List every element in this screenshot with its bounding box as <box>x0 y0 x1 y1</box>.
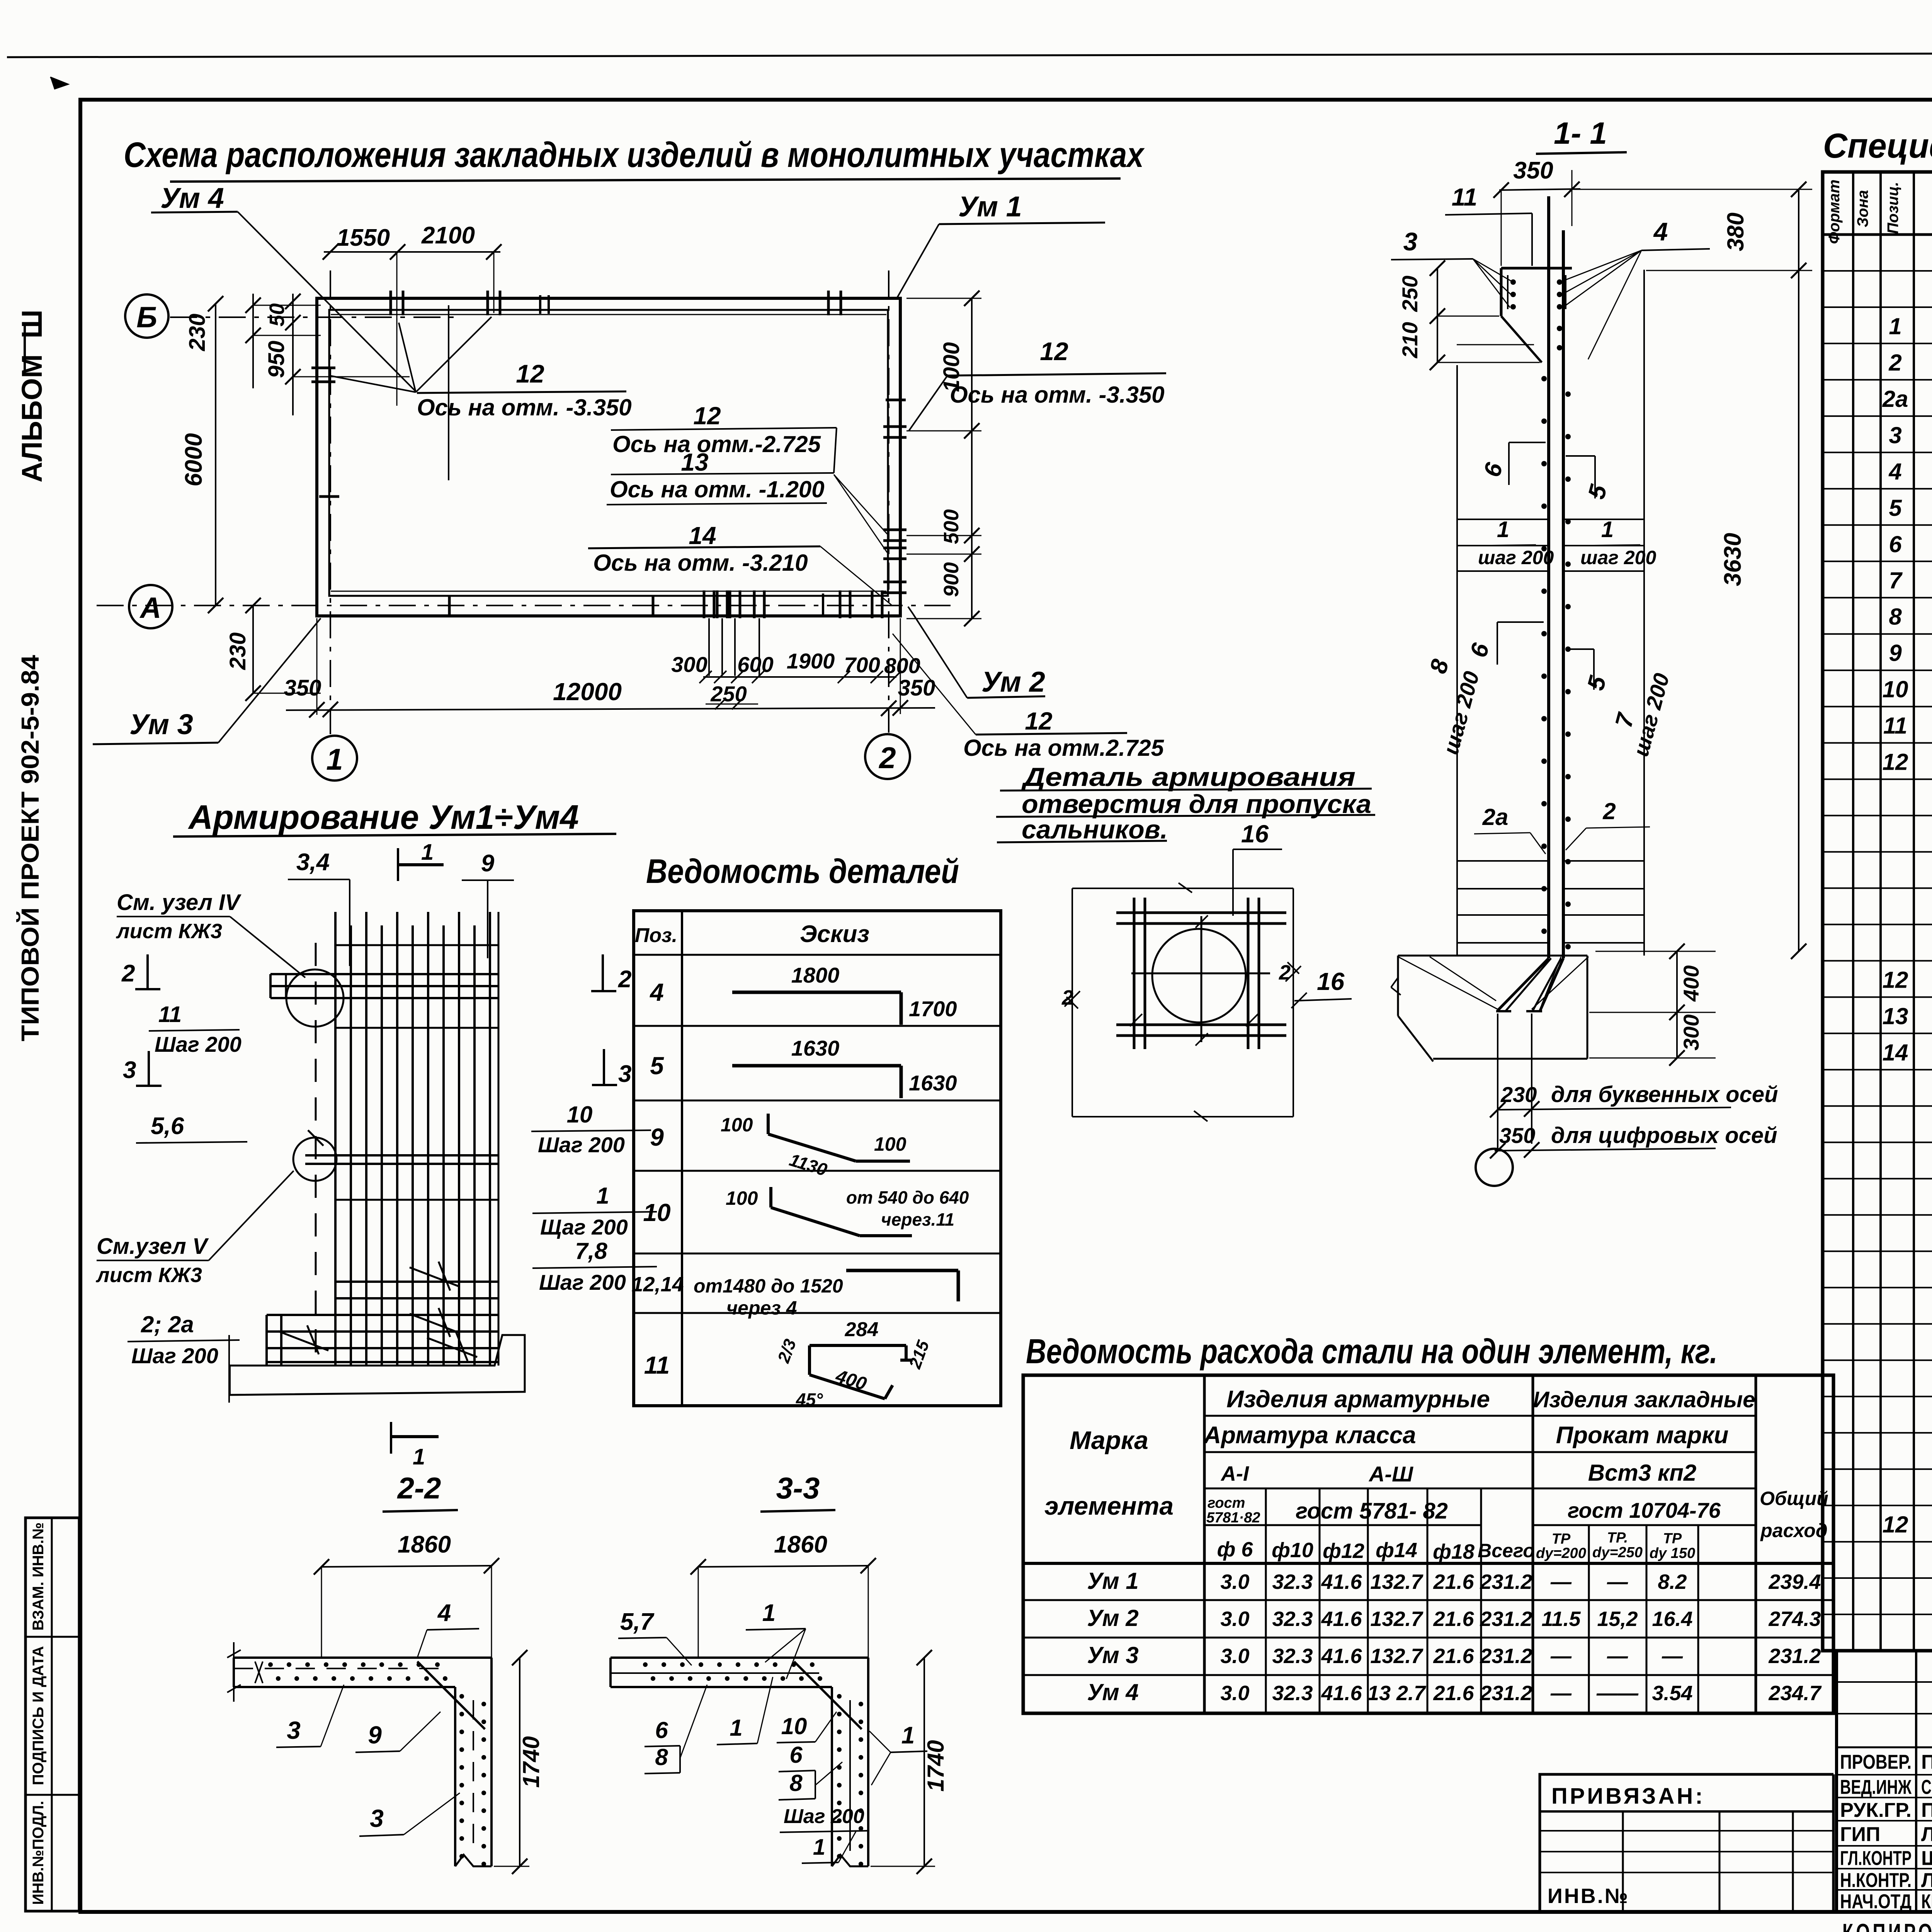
svg-text:1740: 1740 <box>518 1736 544 1787</box>
label Ум3 with leader <box>93 618 321 744</box>
svg-text:350: 350 <box>284 675 321 701</box>
label 7,8 Шаг 200 (right) <box>532 1238 657 1294</box>
svg-text:231.2: 231.2 <box>1480 1570 1532 1594</box>
plan: wall joint marks <box>319 400 906 615</box>
1-1 dim 380 (right) <box>1566 182 1812 278</box>
plan: outer wall rectangle <box>317 298 900 616</box>
svg-text:10: 10 <box>1883 677 1908 702</box>
svg-text:для буквенных осей: для буквенных осей <box>1551 1082 1778 1107</box>
svg-text:3.0: 3.0 <box>1220 1682 1249 1705</box>
svg-text:3: 3 <box>618 1061 631 1087</box>
svg-text:Ведомость деталей: Ведомость деталей <box>646 852 959 890</box>
svg-text:1860: 1860 <box>398 1531 451 1558</box>
svg-text:—: — <box>1607 1645 1628 1668</box>
section mark 1 (bottom) <box>391 1422 439 1469</box>
svg-text:1860: 1860 <box>774 1531 827 1558</box>
1-1 dim 3630 (right) <box>1719 270 1806 959</box>
plan dim: 230 (left top) <box>185 294 321 388</box>
plan dim: 6000 (left) <box>180 296 223 613</box>
svg-text:9: 9 <box>481 850 495 877</box>
1-1 label 7 шаг 200 (right rotated) <box>1610 671 1674 759</box>
1-1 dims 250 210 (left) <box>1398 260 1540 370</box>
plan: embedded plate on left wall <box>311 368 335 382</box>
svg-text:Формат: Формат <box>1826 180 1843 244</box>
label Ум4 with leader <box>151 182 416 391</box>
svg-text:10: 10 <box>643 1199 670 1226</box>
svg-text:1: 1 <box>326 742 343 776</box>
svg-text:РУК.ГР.: РУК.ГР. <box>1840 1799 1912 1821</box>
1-1 rebar dots along walls <box>1541 376 1571 949</box>
plan: embedded plates on right wall <box>883 427 906 593</box>
svg-text:12000: 12000 <box>553 678 622 706</box>
svg-text:Ум 4: Ум 4 <box>1087 1679 1139 1705</box>
specification table frame <box>1823 172 1932 1651</box>
svg-text:231.2: 231.2 <box>1768 1645 1821 1668</box>
svg-text:Позиц.: Позиц. <box>1884 182 1901 234</box>
svg-text:Эскиз: Эскиз <box>800 921 869 947</box>
svg-text:21.6: 21.6 <box>1433 1645 1474 1668</box>
plan: embedded plates on bottom wall <box>704 590 882 676</box>
svg-text:1: 1 <box>1601 517 1614 542</box>
svg-text:50: 50 <box>265 303 289 327</box>
leader note 12 / Ось на отм.-3.350 (left) <box>329 317 632 420</box>
details row 9 sketch <box>650 1114 910 1180</box>
svg-text:Зона: Зона <box>1854 190 1871 228</box>
svg-text:ЛЕВИНА: ЛЕВИНА <box>1921 1869 1932 1892</box>
label 5,6 <box>136 1113 247 1143</box>
svg-text:1550: 1550 <box>337 224 390 251</box>
svg-text:15,2: 15,2 <box>1597 1607 1638 1631</box>
svg-text:1: 1 <box>596 1183 609 1209</box>
title: Армирование Ум1 - Ум4 <box>173 798 616 837</box>
svg-text:4: 4 <box>437 1600 451 1626</box>
section 2-2 dim 1740 <box>494 1650 544 1874</box>
svg-text:8: 8 <box>655 1744 668 1770</box>
leader note 14 / Ось на отм.-3.210 <box>588 522 893 606</box>
svg-text:лист КЖ3: лист КЖ3 <box>95 1264 202 1287</box>
svg-text:1900: 1900 <box>787 649 835 673</box>
svg-text:231.2: 231.2 <box>1480 1682 1532 1705</box>
svg-text:284: 284 <box>845 1318 879 1341</box>
svg-text:1630: 1630 <box>909 1071 957 1095</box>
section 2-2 left break marks <box>227 1642 241 1702</box>
svg-text:250: 250 <box>1398 276 1422 312</box>
svg-text:Шаг 200: Шаг 200 <box>538 1133 625 1157</box>
plan dim: 230 (left bottom) <box>225 598 321 701</box>
svg-text:Ось на отм.-2.725: Ось на отм.-2.725 <box>612 431 821 457</box>
section 3-3 dim 1740 <box>871 1650 949 1874</box>
svg-text:231.2: 231.2 <box>1480 1645 1532 1668</box>
svg-text:4: 4 <box>1888 459 1901 485</box>
svg-text:3,4: 3,4 <box>296 849 330 876</box>
svg-text:Арматура класса: Арматура класса <box>1203 1422 1416 1449</box>
section mark 3 (right) <box>592 1049 631 1087</box>
steel table data rows <box>1087 1568 1822 1705</box>
note См.узел V лист КЖ3 <box>95 1171 294 1287</box>
section mark 2 (right) <box>591 954 631 993</box>
svg-text:АЛЬБОМ Ш: АЛЬБОМ Ш <box>16 310 48 482</box>
svg-text:12,14: 12,14 <box>631 1273 684 1296</box>
svg-text:ШАПИРО: ШАПИРО <box>1921 1847 1932 1870</box>
svg-text:НАЧ.ОТД: НАЧ.ОТД <box>1840 1891 1912 1913</box>
svg-text:2100: 2100 <box>421 222 475 249</box>
svg-text:210: 210 <box>1398 322 1422 358</box>
svg-text:6: 6 <box>789 1742 803 1768</box>
label 2; 2а Шаг 200 <box>128 1311 240 1368</box>
details row 5 sketch <box>650 1036 957 1098</box>
1-1 label 4 with fan <box>1562 217 1710 359</box>
svg-text:1: 1 <box>730 1715 742 1741</box>
svg-text:230: 230 <box>185 314 210 352</box>
svg-text:400: 400 <box>1679 965 1703 1002</box>
svg-text:ГИП: ГИП <box>1840 1823 1880 1846</box>
section mark 3,4 (top) <box>288 849 350 966</box>
svg-text:гост 5781- 82: гост 5781- 82 <box>1296 1498 1448 1524</box>
svg-text:Н.КОНТР.: Н.КОНТР. <box>1840 1869 1912 1892</box>
svg-text:Щаг 200: Щаг 200 <box>540 1215 628 1239</box>
svg-text:Ум 1: Ум 1 <box>958 190 1022 223</box>
svg-text:700: 700 <box>844 653 880 677</box>
title: Ведомость расхода стали на один элемент, кг <box>1026 1332 1718 1371</box>
main title: Схема расположения закладных изделий в монолитных участках <box>124 135 1145 182</box>
svg-text:14: 14 <box>689 522 716 549</box>
left margin label: Альбом III <box>16 310 48 482</box>
svg-text:А: А <box>139 592 162 624</box>
section 2-2 title <box>383 1471 458 1512</box>
title: Ведомость деталей <box>646 852 959 890</box>
svg-text:230: 230 <box>225 633 250 670</box>
svg-text:расход: расход <box>1760 1520 1828 1541</box>
axis circle 1 <box>312 736 357 781</box>
svg-text:ф18: ф18 <box>1433 1540 1475 1563</box>
svg-text:6: 6 <box>655 1717 668 1743</box>
details row 11 sketch <box>644 1318 933 1410</box>
specification rows <box>1823 271 1932 1614</box>
svg-text:Всего: Всего <box>1478 1540 1535 1561</box>
svg-text:шаг 200: шаг 200 <box>1478 547 1554 568</box>
plan: axis line 1 (vertical) <box>330 270 331 734</box>
svg-text:234.7: 234.7 <box>1768 1682 1822 1705</box>
svg-text:8.2: 8.2 <box>1658 1570 1687 1594</box>
svg-text:Марка: Марка <box>1070 1426 1148 1454</box>
svg-text:Армирование Ум1÷Ум4: Армирование Ум1÷Ум4 <box>188 798 579 836</box>
plan: Ум4 corner element edge <box>448 305 449 480</box>
svg-text:3.0: 3.0 <box>1220 1570 1249 1594</box>
label 1 Щаг 200 (right) <box>532 1183 657 1239</box>
svg-text:21.6: 21.6 <box>1433 1682 1474 1705</box>
plan dim: 12000 / 350 (bottom) <box>284 618 935 718</box>
1-1 wall centre lines <box>1496 196 1563 1011</box>
label 10 Шаг 200 (right) <box>531 1102 651 1157</box>
section mark 3 (left) <box>123 1051 162 1086</box>
svg-text:Ум 2: Ум 2 <box>981 666 1045 698</box>
svg-text:ЛЕВИНА: ЛЕВИНА <box>1921 1823 1932 1846</box>
svg-text:13: 13 <box>1883 1003 1908 1029</box>
svg-text:1: 1 <box>901 1722 915 1749</box>
svg-text:Ось на отм. -3.350: Ось на отм. -3.350 <box>950 382 1165 408</box>
title: Спецификация монолитных участков Ум1-Ум4 <box>1823 127 1932 165</box>
svg-text:3.0: 3.0 <box>1220 1645 1249 1668</box>
svg-text:Спецификация монолитных участк: Спецификация монолитных участков Ум1 ÷ У… <box>1823 127 1932 165</box>
svg-text:Ум 3: Ум 3 <box>1087 1642 1139 1668</box>
plan: axis line Б stub <box>170 316 456 318</box>
svg-text:1740: 1740 <box>923 1740 949 1791</box>
svg-text:41.6: 41.6 <box>1321 1645 1362 1668</box>
svg-text:32.3: 32.3 <box>1272 1645 1313 1668</box>
svg-text:—: — <box>1607 1570 1628 1594</box>
svg-text:1700: 1700 <box>909 997 957 1021</box>
label Ум1 with leader <box>897 190 1105 298</box>
svg-text:8: 8 <box>789 1770 803 1796</box>
svg-text:5781·82: 5781·82 <box>1206 1510 1260 1526</box>
svg-text:Изделия арматурные: Изделия арматурные <box>1226 1386 1490 1413</box>
svg-text:Ось на отм.2.725: Ось на отм.2.725 <box>963 735 1165 761</box>
svg-text:См. узел IV: См. узел IV <box>117 890 241 915</box>
svg-text:132.7: 132.7 <box>1370 1645 1423 1668</box>
svg-text:КРАСАВИН: КРАСАВИН <box>1921 1891 1932 1913</box>
svg-text:dy=200: dy=200 <box>1536 1545 1586 1561</box>
svg-text:Поз.: Поз. <box>635 924 677 947</box>
note См.узел IV лист КЖ3 <box>116 890 305 978</box>
left margin stamp column <box>26 1518 79 1911</box>
svg-text:32.3: 32.3 <box>1272 1682 1313 1705</box>
svg-text:500: 500 <box>940 509 963 544</box>
svg-text:ПИСЬМАН: ПИСЬМАН <box>1921 1751 1932 1774</box>
1-1 footing <box>1391 956 1588 1061</box>
svg-text:41.6: 41.6 <box>1321 1682 1362 1705</box>
section mark 1 (top) <box>398 840 444 881</box>
svg-text:ф12: ф12 <box>1323 1539 1364 1563</box>
svg-text:2; 2а: 2; 2а <box>141 1311 194 1337</box>
footing outline under cage <box>229 1335 525 1403</box>
svg-text:4: 4 <box>649 978 664 1006</box>
note 350 для цифровых осей <box>1490 1123 1777 1158</box>
details table frame <box>634 911 1001 1406</box>
details row 4 sketch <box>649 963 957 1025</box>
rebar cage: dashed formwork edge <box>308 943 323 1366</box>
svg-text:сальников.: сальников. <box>1022 815 1168 844</box>
svg-text:11: 11 <box>1883 713 1907 739</box>
svg-text:А-I: А-I <box>1220 1462 1249 1485</box>
svg-text:13 2.7: 13 2.7 <box>1367 1682 1427 1705</box>
svg-text:8: 8 <box>1889 604 1902 630</box>
svg-text:41.6: 41.6 <box>1321 1607 1362 1631</box>
left margin label: Типовой проект 902-5-9.84 <box>16 655 44 1041</box>
section 3-3 title <box>760 1471 835 1512</box>
1-1 label 8 шаг 200 (left rotated) <box>1425 656 1484 757</box>
svg-text:300: 300 <box>1679 1014 1703 1050</box>
svg-text:КОПИРОВАЛ: ЛОГИНОВА: КОПИРОВАЛ: ЛОГИНОВА <box>1842 1919 1932 1932</box>
svg-text:ф 6: ф 6 <box>1217 1538 1253 1561</box>
svg-text:—: — <box>1550 1682 1572 1705</box>
svg-text:274.3: 274.3 <box>1768 1607 1821 1631</box>
svg-text:231.2: 231.2 <box>1480 1607 1532 1631</box>
svg-text:3630: 3630 <box>1719 533 1746 586</box>
svg-text:Схема расположения закладных и: Схема расположения закладных изделий в м… <box>124 135 1145 175</box>
svg-text:3: 3 <box>370 1804 384 1832</box>
svg-text:2а: 2а <box>1882 386 1908 412</box>
svg-text:Ведомость расхода стали на оди: Ведомость расхода стали на один элемент,… <box>1026 1332 1718 1371</box>
label 16 (right) with leader <box>1291 968 1352 1008</box>
svg-text:1: 1 <box>413 1444 425 1469</box>
svg-text:1800: 1800 <box>791 963 840 987</box>
svg-text:380: 380 <box>1723 213 1748 251</box>
note 230 для буквенных осей <box>1490 1082 1778 1117</box>
svg-text:ТИПОВОЙ ПРОЕКТ 902-5-9.84: ТИПОВОЙ ПРОЕКТ 902-5-9.84 <box>16 655 44 1041</box>
svg-text:ф10: ф10 <box>1272 1539 1313 1562</box>
svg-text:от1480 до 1520: от1480 до 1520 <box>694 1275 843 1297</box>
svg-text:1: 1 <box>1889 313 1901 339</box>
label 9 (top) <box>462 850 514 958</box>
svg-text:12: 12 <box>1040 337 1068 366</box>
svg-text:3.54: 3.54 <box>1652 1682 1692 1705</box>
svg-text:12: 12 <box>693 402 721 430</box>
svg-text:—: — <box>1550 1570 1572 1594</box>
leader note 12 / Ось на отм.2.725 (lower right) <box>893 634 1165 761</box>
svg-text:6000: 6000 <box>180 433 207 486</box>
svg-text:3: 3 <box>123 1057 136 1083</box>
svg-text:Вст3 кп2: Вст3 кп2 <box>1588 1460 1697 1486</box>
1-1 label 3 with fan <box>1391 227 1512 308</box>
plan: inner wall rectangle <box>329 310 888 596</box>
svg-text:Общий: Общий <box>1760 1488 1828 1509</box>
plan: inner wall second line <box>331 315 886 591</box>
svg-text:14: 14 <box>1883 1039 1908 1065</box>
svg-text:32.3: 32.3 <box>1272 1570 1313 1594</box>
svg-text:9: 9 <box>1889 640 1902 666</box>
svg-text:Б: Б <box>136 301 157 334</box>
svg-text:13: 13 <box>681 448 708 476</box>
top page edge line <box>7 52 1932 57</box>
1-1 labels 2а 2 <box>1474 798 1650 854</box>
svg-text:2: 2 <box>121 960 135 987</box>
section 1-1 title <box>1536 116 1627 154</box>
privyazan box <box>1540 1774 1833 1911</box>
svg-text:132.7: 132.7 <box>1370 1607 1423 1631</box>
svg-text:dy=250: dy=250 <box>1592 1544 1643 1561</box>
svg-text:230: 230 <box>1500 1082 1537 1107</box>
svg-text:2: 2 <box>618 966 631 993</box>
svg-text:950: 950 <box>264 341 289 378</box>
axis circle А <box>129 585 172 628</box>
svg-text:ф14: ф14 <box>1376 1539 1417 1562</box>
svg-text:1: 1 <box>762 1600 776 1626</box>
plan: axis line А (horizontal) <box>97 605 951 606</box>
opening detail drawing <box>1066 883 1299 1121</box>
svg-text:для цифровых осей: для цифровых осей <box>1551 1123 1777 1148</box>
1-1 label 11 <box>1445 183 1532 266</box>
axis circle Б <box>125 294 168 338</box>
svg-text:7: 7 <box>1889 568 1903 594</box>
1-1 axis extension and circle <box>1476 1014 1532 1186</box>
svg-text:5,6: 5,6 <box>151 1113 184 1139</box>
plan dim chain: 300 600 1900 700 800 250 (bottom right) <box>671 649 920 709</box>
svg-text:12: 12 <box>1883 1512 1908 1537</box>
section 2-2 labels <box>276 1600 479 1836</box>
steel table <box>1023 1375 1833 1713</box>
svg-text:1- 1: 1- 1 <box>1554 116 1607 150</box>
svg-text:3.0: 3.0 <box>1220 1607 1249 1631</box>
svg-text:ГЛ.КОНТР: ГЛ.КОНТР <box>1840 1847 1912 1870</box>
svg-text:11: 11 <box>644 1351 670 1379</box>
svg-text:1630: 1630 <box>791 1036 840 1060</box>
details row 12,14 sketch <box>631 1270 958 1319</box>
svg-text:16.4: 16.4 <box>1652 1607 1692 1631</box>
svg-text:dy 150: dy 150 <box>1650 1545 1695 1561</box>
title block staff names <box>1840 1751 1932 1913</box>
svg-text:41.6: 41.6 <box>1321 1570 1362 1594</box>
svg-text:10: 10 <box>567 1102 593 1128</box>
svg-text:3: 3 <box>287 1716 301 1744</box>
svg-text:11.5: 11.5 <box>1541 1607 1581 1631</box>
plan dim: 50 / 950 (left) <box>264 294 410 415</box>
rebar cage: horizontal bars <box>305 945 498 1200</box>
svg-text:Шаг 200: Шаг 200 <box>784 1805 864 1828</box>
svg-text:СМЫСЛОВА: СМЫСЛОВА <box>1921 1776 1932 1799</box>
svg-text:12: 12 <box>1025 707 1052 735</box>
svg-text:Шаг 200: Шаг 200 <box>131 1344 218 1368</box>
title block outer <box>1837 1651 1932 1911</box>
svg-text:через.11: через.11 <box>881 1209 954 1230</box>
detail circle V on cage <box>293 1138 337 1181</box>
svg-text:2: 2 <box>878 741 896 775</box>
svg-text:3: 3 <box>1889 422 1901 448</box>
svg-text:——: —— <box>1596 1682 1639 1705</box>
svg-text:—: — <box>1662 1645 1683 1668</box>
svg-text:шаг 200: шаг 200 <box>1580 547 1656 568</box>
svg-text:2: 2 <box>1602 798 1616 824</box>
svg-text:32.3: 32.3 <box>1272 1607 1313 1631</box>
svg-text:ПИСЬМАН: ПИСЬМАН <box>1921 1799 1932 1821</box>
svg-text:11: 11 <box>158 1002 182 1027</box>
section mark 2 on detail square <box>1061 961 1301 1009</box>
section 3-3 dim 1860 <box>690 1531 876 1658</box>
svg-text:45°: 45° <box>796 1389 823 1410</box>
svg-text:239.4: 239.4 <box>1768 1570 1821 1594</box>
1-1 outer band lines <box>1457 270 1644 956</box>
svg-text:ПРОВЕР.: ПРОВЕР. <box>1840 1751 1912 1774</box>
svg-text:12: 12 <box>1883 967 1908 993</box>
svg-text:5,7: 5,7 <box>620 1609 655 1635</box>
svg-text:гост: гост <box>1207 1495 1245 1511</box>
svg-text:2: 2 <box>1061 986 1073 1009</box>
svg-text:350: 350 <box>1513 157 1553 184</box>
svg-text:А-Ш: А-Ш <box>1368 1462 1413 1486</box>
section 2-2 dim 1860 <box>314 1531 499 1658</box>
svg-text:Шаг 200: Шаг 200 <box>155 1032 241 1056</box>
plan: embedded plates on top wall <box>391 291 841 315</box>
svg-text:11: 11 <box>1452 183 1477 211</box>
details row 10 sketch <box>643 1187 969 1236</box>
svg-text:6: 6 <box>1889 531 1902 557</box>
rebar cage: vertical bars <box>335 912 490 1366</box>
svg-text:ВЕД.ИНЖ: ВЕД.ИНЖ <box>1840 1776 1912 1799</box>
svg-text:Изделия закладные: Изделия закладные <box>1533 1387 1755 1412</box>
svg-text:Прокат марки: Прокат марки <box>1556 1422 1729 1449</box>
svg-text:через 4: через 4 <box>726 1297 797 1319</box>
section 3-3 body <box>611 1658 868 1866</box>
svg-text:лист КЖ3: лист КЖ3 <box>116 920 222 943</box>
svg-text:Ум 2: Ум 2 <box>1087 1605 1139 1631</box>
svg-text:9: 9 <box>368 1721 382 1749</box>
svg-text:16: 16 <box>1317 968 1345 995</box>
svg-text:21.6: 21.6 <box>1433 1607 1474 1631</box>
svg-text:600: 600 <box>737 652 773 677</box>
label Ум2 with leader <box>908 607 1045 698</box>
section mark 2 (left) <box>121 954 160 989</box>
label 11 Шаг 200 <box>149 1002 241 1056</box>
svg-text:16: 16 <box>1241 820 1269 848</box>
